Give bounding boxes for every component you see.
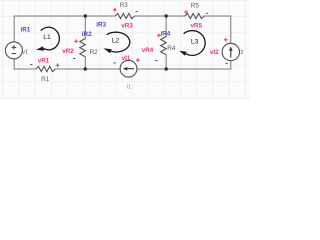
svg-text:vR2: vR2 bbox=[62, 48, 74, 55]
svg-text:L2: L2 bbox=[112, 38, 120, 45]
svg-text:vR3: vR3 bbox=[121, 23, 133, 30]
plus mark R2 bbox=[74, 39, 78, 43]
wire top rail right segment bbox=[204, 15, 231, 17]
svg-text:iR2: iR2 bbox=[82, 31, 92, 38]
svg-text:R4: R4 bbox=[167, 45, 176, 52]
current source I2 bbox=[222, 43, 239, 60]
node junction R2 top bbox=[84, 14, 87, 17]
wire bottom rail segment R1 to I1 bbox=[55, 68, 120, 70]
plus mark R4 bbox=[157, 34, 161, 38]
minus mark R2 bbox=[73, 58, 75, 60]
svg-text:vR1: vR1 bbox=[38, 57, 50, 64]
resistor R1 bbox=[36, 66, 55, 71]
current source I1 bbox=[120, 60, 137, 77]
svg-text:vI1: vI1 bbox=[122, 55, 131, 62]
node junction R2 bottom bbox=[84, 67, 87, 70]
wire R2 branch lower bbox=[84, 57, 86, 69]
loop arrow L2 bbox=[104, 32, 130, 53]
svg-text:R3: R3 bbox=[120, 2, 129, 9]
wire R4 branch lower bbox=[165, 55, 167, 69]
svg-text:iR4: iR4 bbox=[161, 30, 171, 37]
svg-text:vI2: vI2 bbox=[210, 49, 219, 56]
svg-text:L1: L1 bbox=[43, 34, 51, 41]
minus mark R3 bbox=[136, 11, 138, 13]
plus mark I1 bbox=[136, 58, 140, 62]
minus mark R5 bbox=[206, 12, 208, 14]
minus mark I1 bbox=[113, 62, 115, 64]
plus mark R5 bbox=[184, 10, 188, 14]
svg-text:I2: I2 bbox=[239, 50, 244, 56]
svg-text:iR3: iR3 bbox=[96, 21, 106, 28]
wire right branch upper bbox=[230, 16, 232, 43]
wire left branch upper bbox=[13, 16, 15, 42]
resistor R2 bbox=[80, 39, 86, 57]
wire bottom rail segment I1 to right bbox=[137, 68, 231, 70]
svg-text:R5: R5 bbox=[191, 2, 200, 9]
minus mark I2 bbox=[226, 62, 228, 64]
svg-text:R1: R1 bbox=[41, 76, 50, 83]
loop arrow L1 bbox=[36, 27, 59, 50]
svg-text:iR1: iR1 bbox=[21, 26, 31, 33]
wire R4 branch upper bbox=[165, 16, 167, 37]
wire bottom rail left segment bbox=[14, 68, 36, 70]
minus mark R4 bbox=[155, 60, 157, 62]
wire right branch lower bbox=[230, 61, 232, 69]
plus mark R3 bbox=[113, 8, 117, 12]
wire top rail left segment bbox=[14, 15, 115, 17]
svg-text:vR4: vR4 bbox=[142, 47, 154, 54]
minus mark R1 bbox=[30, 64, 32, 66]
resistor R4 bbox=[161, 37, 167, 55]
svg-text:I1: I1 bbox=[126, 84, 131, 90]
wire top rail middle segment bbox=[135, 15, 186, 17]
wire left branch lower bbox=[13, 59, 15, 69]
svg-text:vR5: vR5 bbox=[191, 23, 203, 30]
plus mark I2 bbox=[224, 38, 228, 42]
svg-text:R2: R2 bbox=[90, 49, 99, 56]
voltage source V1 bbox=[5, 42, 22, 59]
loop arrow L3 bbox=[179, 31, 205, 56]
resistor R5 bbox=[185, 13, 204, 18]
node junction R4 top bbox=[165, 14, 168, 17]
svg-text:v1: v1 bbox=[22, 50, 28, 56]
resistor R3 bbox=[115, 13, 134, 18]
node junction R4 bottom bbox=[165, 67, 168, 70]
svg-text:L3: L3 bbox=[191, 39, 199, 46]
plus mark R1 bbox=[56, 63, 60, 67]
wire R2 branch upper bbox=[84, 16, 86, 39]
